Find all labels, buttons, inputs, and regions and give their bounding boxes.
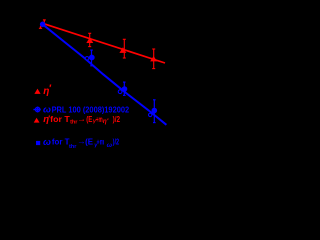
blue fit line (43, 24, 167, 125)
red errorbar A (88, 33, 91, 46)
legend row 4 marker: blue square (36, 141, 40, 145)
svg-text:)/2: )/2 (113, 138, 120, 147)
blue filled circle M2 (89, 55, 95, 61)
blue errorbar M2 (90, 50, 93, 66)
blue point origin (40, 22, 46, 28)
legend row 1 marker: red triangle (34, 89, 40, 94)
blue errorbar M4 (153, 100, 156, 123)
red errorbar origin top cap (43, 20, 46, 23)
blue errorbar M3 (123, 82, 126, 95)
svg-text:+m: +m (97, 138, 105, 147)
blue open circle M3 (118, 90, 122, 94)
red fit line (43, 23, 166, 63)
blue filled circle M4 (152, 108, 158, 114)
svg-text:ω: ω (43, 137, 51, 148)
svg-text:+m: +m (96, 115, 103, 124)
svg-text:for T: for T (50, 115, 70, 124)
svg-text:→: → (77, 113, 86, 123)
blue open circle M2 (85, 57, 89, 61)
red errorbar B (123, 39, 126, 58)
red triangle C (150, 56, 157, 61)
legend row 2 marker: blue circle-plus (33, 107, 40, 113)
svg-text:for T: for T (52, 138, 70, 147)
svg-text:thr: thr (69, 144, 77, 150)
red errorbar origin bottom cap (39, 26, 42, 28)
legend row 3 marker: red triangle (34, 118, 40, 123)
svg-text:)/2: )/2 (113, 115, 121, 124)
svg-text:η′: η′ (103, 118, 109, 125)
blue filled circle M3 (122, 86, 128, 92)
svg-text:(E: (E (85, 138, 94, 147)
blue open circle M4 (149, 113, 152, 116)
red triangle B (119, 47, 126, 53)
red triangle A (86, 37, 93, 43)
red errorbar C (152, 49, 155, 69)
svg-text:PRL 100 (2008)192002: PRL 100 (2008)192002 (52, 104, 130, 114)
